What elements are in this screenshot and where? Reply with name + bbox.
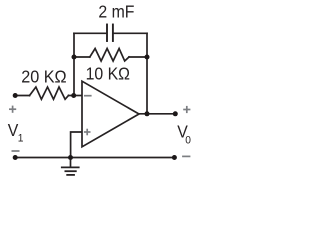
svg-text:20 KΩ: 20 KΩ bbox=[21, 67, 67, 87]
svg-text:0: 0 bbox=[185, 134, 191, 146]
svg-text:1: 1 bbox=[18, 132, 24, 144]
svg-text:10 KΩ: 10 KΩ bbox=[86, 64, 130, 84]
svg-text:2 mF: 2 mF bbox=[98, 2, 134, 22]
